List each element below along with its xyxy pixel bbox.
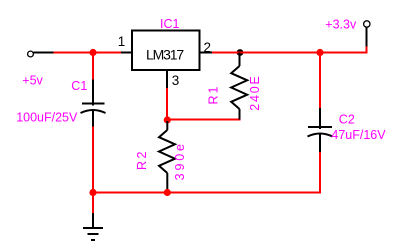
- svg-text:47uF/16V: 47uF/16V: [331, 128, 386, 142]
- svg-text:240E: 240E: [248, 74, 262, 110]
- svg-text:+3.3v: +3.3v: [325, 18, 357, 32]
- resistor R1: [231, 53, 247, 120]
- svg-text:C2: C2: [339, 113, 355, 127]
- wire: output up to terminal (red): [366, 47, 368, 53]
- IC U1 regulator LM317 box (IC1): [132, 31, 200, 71]
- node D junction dot (out node / C2 top): [316, 49, 323, 56]
- wire: input rail red to junction A: [54, 52, 122, 54]
- svg-text:1: 1: [118, 34, 126, 49]
- wire: bottom ground rail: [92, 192, 321, 194]
- wire: out node down to C2: [319, 53, 321, 109]
- node B junction dot (adj node): [164, 116, 171, 123]
- ground: [83, 213, 103, 240]
- svg-text:100uF/25V: 100uF/25V: [16, 111, 78, 125]
- wire: C2 to bottom rail: [319, 152, 321, 194]
- wire: C1 to ground rail: [92, 127, 94, 193]
- capacitor C1: [81, 80, 106, 128]
- node C junction dot black (R1 top): [237, 49, 244, 56]
- pin 3 stub: [166, 70, 168, 89]
- pin 2 stub: [199, 52, 213, 54]
- svg-text:LM317: LM317: [146, 46, 184, 62]
- wire: terminal OUT stub black: [366, 28, 368, 47]
- pin 1 stub: [121, 52, 133, 54]
- wire: node A down to C1: [92, 53, 94, 81]
- svg-text:2: 2: [204, 40, 212, 55]
- capacitor C2: [308, 108, 333, 153]
- node F junction dot (R2 bottom): [164, 189, 171, 196]
- terminal IN (+5v): [28, 51, 34, 57]
- svg-text:C1: C1: [71, 79, 87, 93]
- wire: output rail red: [212, 52, 368, 54]
- svg-text:IC1: IC1: [160, 17, 180, 31]
- wire: down to ground symbol: [92, 193, 94, 214]
- svg-text:+5v: +5v: [22, 74, 43, 88]
- svg-text:R2: R2: [135, 149, 149, 170]
- resistor R2: [159, 121, 175, 192]
- terminal OUT (+3.3v): [364, 21, 370, 27]
- node E junction dot (ground left): [89, 189, 96, 196]
- wire: terminal stub black: [34, 52, 54, 54]
- svg-text:R1: R1: [207, 85, 221, 105]
- svg-text:390e: 390e: [173, 141, 187, 180]
- svg-text:3: 3: [172, 73, 180, 88]
- node A junction dot: [89, 49, 96, 56]
- wire: adj node to R1 bottom: [167, 119, 240, 121]
- wire: pin 3 down: [166, 88, 168, 121]
